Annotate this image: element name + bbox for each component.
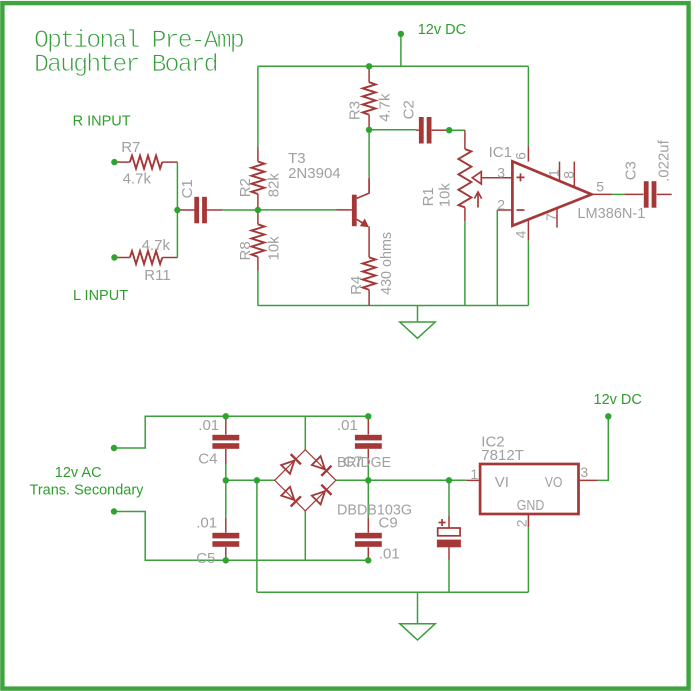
svg-text:2: 2 [497, 197, 505, 213]
svg-text:R1: R1 [420, 187, 437, 206]
svg-text:R7: R7 [121, 139, 140, 156]
svg-text:7812T: 7812T [481, 447, 524, 464]
svg-text:12v AC: 12v AC [55, 465, 102, 481]
svg-text:.01: .01 [379, 546, 400, 563]
svg-text:4: 4 [513, 230, 529, 238]
svg-text:5: 5 [596, 178, 604, 194]
svg-text:C9: C9 [379, 515, 398, 532]
svg-text:1: 1 [470, 466, 478, 482]
svg-text:.022uf: .022uf [656, 139, 673, 182]
svg-text:4.7k: 4.7k [142, 237, 171, 254]
svg-text:C2: C2 [401, 100, 418, 119]
svg-text:2N3904: 2N3904 [288, 165, 341, 182]
svg-text:IC1: IC1 [489, 144, 512, 161]
svg-text:430 ohms: 430 ohms [378, 232, 395, 295]
svg-text:C4: C4 [198, 451, 217, 468]
svg-text:3: 3 [497, 165, 505, 181]
svg-text:6: 6 [513, 152, 529, 160]
svg-text:R8: R8 [237, 241, 254, 260]
svg-text:1: 1 [546, 169, 562, 177]
svg-text:L INPUT: L INPUT [73, 288, 128, 304]
svg-text:C3: C3 [623, 161, 640, 180]
svg-text:10k: 10k [437, 183, 454, 208]
svg-text:.01: .01 [337, 417, 358, 434]
svg-text:10k: 10k [266, 236, 283, 261]
svg-text:.01: .01 [196, 515, 217, 532]
svg-text:Daughter Board: Daughter Board [34, 50, 217, 79]
svg-text:BRIDGE: BRIDGE [337, 454, 391, 471]
svg-text:7: 7 [543, 213, 559, 221]
svg-text:LM386N-1: LM386N-1 [577, 205, 645, 222]
svg-text:R2: R2 [237, 178, 254, 197]
svg-text:R INPUT: R INPUT [73, 114, 131, 130]
svg-text:R4: R4 [348, 276, 365, 295]
svg-text:DBDB103G: DBDB103G [337, 502, 412, 519]
svg-text:12v DC: 12v DC [594, 392, 642, 408]
svg-text:.01: .01 [198, 417, 219, 434]
svg-text:8: 8 [560, 171, 576, 179]
svg-text:C5: C5 [196, 550, 215, 567]
svg-text:R11: R11 [144, 267, 170, 284]
svg-text:GND: GND [517, 497, 545, 514]
svg-text:2: 2 [513, 519, 529, 527]
svg-text:4.7k: 4.7k [123, 170, 152, 187]
svg-text:VI: VI [495, 474, 509, 491]
svg-text:Trans. Secondary: Trans. Secondary [30, 483, 145, 499]
svg-text:4.7k: 4.7k [377, 93, 394, 122]
svg-text:R3: R3 [347, 101, 364, 120]
svg-text:3: 3 [580, 464, 588, 480]
svg-text:12v DC: 12v DC [418, 22, 466, 38]
svg-text:C1: C1 [179, 179, 196, 198]
svg-text:VO: VO [545, 474, 563, 491]
svg-text:82k: 82k [266, 173, 283, 198]
